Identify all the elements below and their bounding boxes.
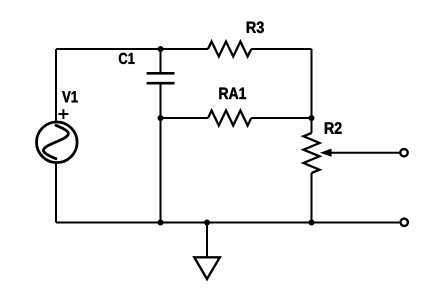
wire C1 top lead — [160, 49, 162, 72]
output terminal upper — [400, 149, 407, 156]
voltage source V1 circle — [37, 122, 78, 163]
plus sign — [58, 109, 68, 119]
voltage source V1 sine wave — [44, 125, 69, 158]
wire RA1 right segment — [251, 117, 311, 119]
wire RA1 left segment — [161, 117, 209, 119]
junction node C1 / RA1 — [158, 115, 164, 121]
label RA1 — [219, 88, 246, 99]
wire C1 bottom lead down to bottom rail — [160, 85, 162, 223]
resistor R3 — [208, 42, 251, 57]
wire left vertical lower (V1 bottom lead) — [55, 161, 57, 222]
wire top horizontal left segment — [56, 48, 208, 50]
junction node RA1 / R2 — [309, 115, 315, 121]
output terminal lower — [401, 219, 408, 226]
wire wiper to output terminal — [331, 152, 399, 154]
junction node ground — [204, 220, 210, 226]
potentiometer R2 wiper arrowhead — [320, 149, 332, 157]
wire right vertical upper — [311, 49, 313, 133]
label R3 — [247, 22, 264, 34]
ground — [194, 223, 220, 280]
potentiometer R2 resistor body — [304, 133, 320, 173]
junction node bottom left — [158, 220, 164, 226]
junction node C1 top — [158, 46, 164, 52]
wire bottom horizontal — [56, 222, 399, 224]
capacitor C1 — [147, 73, 175, 83]
label V1 — [62, 91, 77, 102]
wire left vertical upper (V1 top lead) — [55, 49, 57, 124]
wire right vertical lower — [311, 173, 313, 223]
label R2 — [325, 122, 342, 134]
wire top horizontal right segment — [251, 48, 311, 50]
label C1 — [119, 53, 135, 64]
junction node bottom right — [309, 220, 315, 226]
resistor RA1 — [208, 111, 251, 126]
